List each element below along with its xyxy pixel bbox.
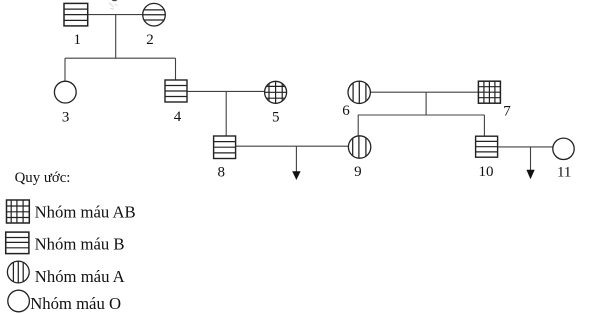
- svg-text:Quy ước:: Quy ước:: [15, 170, 71, 186]
- svg-text:6: 6: [342, 103, 350, 119]
- svg-text:10: 10: [479, 164, 494, 180]
- svg-text:3: 3: [62, 110, 70, 126]
- svg-text:5: 5: [272, 110, 280, 126]
- svg-text:8: 8: [218, 164, 226, 180]
- svg-text:11: 11: [557, 165, 571, 181]
- svg-text:2: 2: [146, 32, 154, 48]
- svg-text:Nhóm máu B: Nhóm máu B: [35, 235, 125, 254]
- svg-text:Nhóm máu A: Nhóm máu A: [35, 267, 125, 286]
- svg-text:Nhóm máu AB: Nhóm máu AB: [35, 203, 136, 222]
- svg-text:4: 4: [174, 109, 182, 125]
- svg-text:1: 1: [74, 32, 82, 48]
- svg-text:9: 9: [354, 164, 362, 180]
- svg-text:Nhóm máu O: Nhóm máu O: [30, 294, 121, 313]
- svg-text:7: 7: [503, 104, 511, 120]
